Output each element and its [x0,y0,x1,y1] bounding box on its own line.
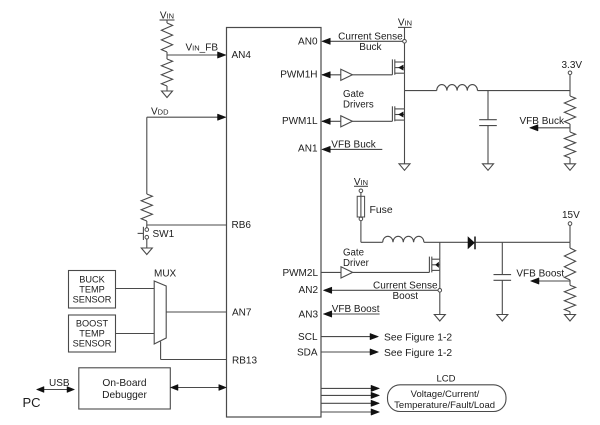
arrowhead LCD line 1 [371,385,380,391]
wire R2 to ground [166,86,168,91]
net label VIN_FB [186,43,219,54]
resistor R6 boost divider top [564,248,575,280]
svg-text:Boost: Boost [393,291,419,302]
label SW1 [153,229,175,240]
svg-text:PWM1H: PWM1H [280,69,317,80]
power label VIN boost [354,177,368,188]
arrowhead into AN1 [322,146,331,152]
arrowhead into AN3 [323,311,332,317]
svg-text:VDD: VDD [151,107,169,118]
pin label PWM1L [282,116,318,127]
wire Q3 drain up to rail [439,242,441,259]
diode D1 [468,237,475,250]
capacitor C1 buck output [479,120,497,164]
ground under C1 [483,164,494,171]
svg-text:LCD: LCD [437,374,456,385]
arrowhead into PWM1H [322,72,331,78]
arrowhead LCD line 4 [371,409,380,415]
svg-text:On-Board: On-Board [102,378,147,389]
resistor R7 boost divider bottom [564,285,575,312]
net label Current Sense Boost [373,280,438,302]
wire SCL [322,336,372,338]
label LCD [437,374,456,385]
arrowhead VDD into block [218,114,227,120]
block BUCK TEMP SENSOR [69,271,116,309]
arrowhead VFB boost [531,278,540,284]
block On-Board Debugger [79,368,171,409]
svg-text:Buck: Buck [359,42,382,53]
ground under VIN divider [162,91,173,98]
wire driver to Q3 gate [353,271,430,273]
wire diode cathode to 15V rail [476,241,570,243]
label Fuse [370,205,393,216]
svg-text:TEMP: TEMP [79,329,105,339]
wire LCD line 3 [322,402,372,404]
svg-text:SDA: SDA [297,348,318,359]
arrowhead into PWM1L [322,118,331,124]
net label VFB Buck at AN1 [331,139,376,150]
wire SW1 to ground [146,239,148,248]
wire Q3 source to sense node [439,270,441,288]
wire current sense boost [331,289,439,291]
power label VIN input divider [160,11,175,22]
wire VFB boost to AN3 [331,313,380,315]
svg-text:Current Sense: Current Sense [373,280,438,291]
arrowhead into AN4 [218,52,227,58]
svg-text:MUX: MUX [154,269,177,280]
svg-text:VFB Buck: VFB Buck [331,139,376,150]
terminal 15V [568,222,572,226]
label Gate Driver boost [343,248,370,270]
transistor Q1 high-side buck MOSFET [392,59,404,74]
pin label RB13 [232,355,257,366]
wire VFB buck tap [536,127,570,129]
pin label AN3 [299,309,319,320]
wire inductor to diode anode [424,241,468,243]
svg-text:AN0: AN0 [298,37,318,48]
svg-text:SW1: SW1 [153,229,175,240]
svg-text:See Figure 1-2: See Figure 1-2 [384,333,452,344]
svg-text:Voltage/Current/: Voltage/Current/ [411,389,480,400]
arrowhead LCD line 2 [371,392,380,398]
wire driver to Q2 gate [352,120,392,122]
ground under SW1 [141,248,152,255]
pin label RB6 [232,220,252,231]
wire VDD vertical down [146,117,148,194]
pin label AN7 [232,307,252,318]
wire 3.3V to rail [569,75,571,96]
label PC [23,395,41,410]
svg-text:VIN_FB: VIN_FB [186,43,219,54]
net label VFB Buck at divider [520,116,565,127]
svg-text:VIN: VIN [398,17,412,28]
svg-text:VFB Buck: VFB Buck [520,116,565,127]
svg-text:Temperature/Fault/Load: Temperature/Fault/Load [394,400,495,411]
wire LCD line 2 [322,394,372,396]
inductor L2 boost [383,236,424,242]
node current sense boost tap [438,289,442,293]
wire R7 to ground [569,312,571,315]
wire boost sensor to mux [116,333,155,335]
wire boost cap branch [501,242,503,274]
capacitor C2 boost output [494,275,512,315]
pin label PWM2L [282,268,318,279]
svg-text:AN3: AN3 [299,309,319,320]
ground under Q3 [434,315,445,322]
USB bidirectional arrow [37,387,75,393]
wire buck sensor to mux [116,288,155,290]
wire LCD line 1 [322,387,372,389]
terminal 3.3V [568,71,572,75]
net label Current Sense Buck [338,31,403,53]
gate driver buffer U3b [341,116,353,127]
resistor R3 pull-up to RB6 [141,194,152,221]
svg-text:SENSOR: SENSOR [73,339,112,349]
wire R5 to ground [569,158,571,164]
wire current sense buck [329,40,403,42]
wire VIN down to current sense node [404,27,406,39]
svg-text:15V: 15V [562,210,580,221]
wire fuse to boost rail [361,221,383,243]
svg-text:Gate: Gate [343,89,364,100]
arrowhead into AN2 [323,287,332,293]
ground under Q2 [399,164,410,171]
svg-text:BOOST: BOOST [76,319,109,329]
mux U2 trapezoid [154,281,166,344]
wire Q2 source to ground [404,120,406,164]
net label VFB Boost at AN3 [332,304,380,315]
fuse F1 [357,196,364,217]
wire driver to Q1 gate [352,74,392,76]
net label VFB Boost at divider [516,269,564,280]
terminal above fuse [359,189,363,193]
wire 15V to rail [569,225,571,248]
wire PWM1L pin to driver [322,120,341,122]
IC U1 dsPIC block [227,28,322,418]
wire inductor to 3.3V rail [478,90,571,92]
label 15V [562,210,580,221]
block LCD display [388,385,507,412]
wire VIN_FB tap to AN4 [167,54,219,56]
pin label AN0 [298,37,318,48]
svg-text:Driver: Driver [343,258,370,269]
svg-text:See Figure 1-2: See Figure 1-2 [384,348,452,359]
wire mux select from RB13 [161,342,227,360]
svg-text:AN1: AN1 [298,144,318,155]
wire node to RB6 pin [147,224,227,226]
resistor R5 buck divider bottom [564,132,575,158]
pin label AN2 [299,285,319,296]
terminal below fuse [359,217,363,221]
pin label AN4 [232,50,252,61]
svg-text:PC: PC [23,395,41,410]
wire mux output to AN7 [166,311,226,313]
arrowhead into AN0 [322,38,331,44]
resistor R1 top of VIN divider [161,23,172,52]
wire switch node to Q2 drain [404,91,406,109]
resistor R4 buck divider top [564,96,575,124]
pin label SDA [297,348,318,359]
ground under C2 [497,315,508,322]
svg-text:VFB Boost: VFB Boost [516,269,564,280]
svg-text:Gate: Gate [343,248,364,259]
transistor Q3 boost MOSFET [429,257,439,273]
arrowhead SDA [370,349,379,355]
gate driver buffer U3a [341,69,353,80]
wire VDD horizontal to block [147,116,219,118]
svg-text:RB6: RB6 [232,220,252,231]
wire R3 to RB6 node [146,221,148,226]
svg-text:AN4: AN4 [232,50,252,61]
pin label AN1 [298,144,318,155]
wire VIN to fuse [360,193,362,197]
wire switch node to inductor [405,90,437,92]
wire R4 to tap [569,124,571,132]
arrowhead VFB buck [530,125,539,131]
svg-text:SENSOR: SENSOR [73,294,112,304]
wire VFB boost tap [537,280,570,282]
wire PWM2L to driver [322,271,342,273]
inductor L1 buck [437,85,478,91]
svg-text:AN7: AN7 [232,307,252,318]
svg-text:Debugger: Debugger [102,390,147,401]
svg-text:PWM2L: PWM2L [282,268,318,279]
ground under buck divider [565,164,576,171]
arrowhead SCL [370,333,379,339]
pin label PWM1H [280,69,317,80]
wire R1 to R2 with VIN_FB tap [166,52,168,59]
power label VIN buck [398,17,412,28]
label Gate Drivers [343,89,374,111]
svg-text:TEMP: TEMP [79,284,105,294]
svg-text:3.3V: 3.3V [562,60,583,71]
resistor R2 bottom of VIN divider [161,59,172,86]
wire VIN to R1 [166,20,168,23]
label See Figure 1-2 for SDA [384,348,452,359]
wire R6 to tap [569,280,571,285]
gate driver buffer U4 [341,267,353,278]
node current sense buck tap [403,40,407,44]
power label VDD [151,107,169,118]
wire sense node to ground [439,292,441,314]
svg-text:PWM1L: PWM1L [282,116,318,127]
pin label SCL [298,332,318,343]
svg-text:VFB Boost: VFB Boost [332,304,380,315]
ground under boost divider [565,315,576,322]
label 3.3V [562,60,583,71]
wire node to Q1 drain [404,43,406,62]
label MUX [154,269,177,280]
wire LCD line 4 [322,411,372,413]
debugger to MCU bidirectional arrow [171,385,227,391]
svg-text:SCL: SCL [298,332,318,343]
wire PWM1H pin to driver [322,74,341,76]
svg-text:Current Sense: Current Sense [338,31,403,42]
transistor Q2 low-side buck MOSFET [392,106,404,121]
switch SW1 [138,225,149,240]
wire buck cap branch [487,91,489,120]
svg-text:Fuse: Fuse [370,205,393,216]
svg-text:RB13: RB13 [232,355,257,366]
svg-text:AN2: AN2 [299,285,319,296]
svg-text:BUCK: BUCK [79,274,105,284]
svg-text:Drivers: Drivers [343,100,374,111]
wire SDA [322,351,372,353]
label See Figure 1-2 for SCL [384,333,452,344]
wire Q1 source to switch node [404,73,406,90]
arrowhead LCD line 3 [371,400,380,406]
wire VFB buck to AN1 [329,148,382,150]
block BOOST TEMP SENSOR [69,315,116,352]
label USB [49,378,70,389]
